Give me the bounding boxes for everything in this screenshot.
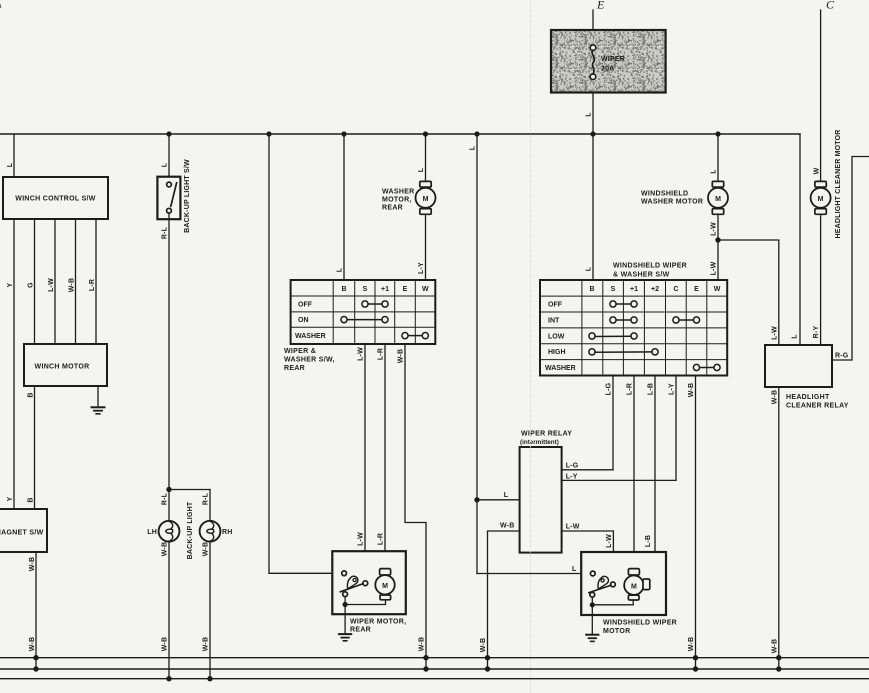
- junction: [776, 655, 781, 660]
- svg-text:W-B: W-B: [688, 383, 695, 397]
- wire L-G S down: [612, 376, 614, 470]
- svg-text:L: L: [418, 167, 425, 172]
- magnet switch: [0, 509, 47, 552]
- svg-text:CLEANER RELAY: CLEANER RELAY: [786, 403, 849, 410]
- svg-text:E: E: [403, 286, 408, 293]
- bottom bus line 1: [0, 657, 869, 659]
- svg-text:OFF: OFF: [298, 302, 313, 309]
- ws switch contacts LOW: [589, 333, 637, 339]
- svg-text:WASHER: WASHER: [382, 189, 415, 196]
- svg-text:W-B: W-B: [29, 637, 36, 651]
- svg-text:L: L: [7, 162, 14, 167]
- svg-text:L-W: L-W: [606, 534, 613, 548]
- svg-text:HEADLIGHT CLEANER MOTOR: HEADLIGHT CLEANER MOTOR: [835, 129, 842, 238]
- wire L to back-up light switch: [168, 134, 170, 182]
- svg-text:W-B: W-B: [688, 637, 695, 651]
- fold artifact line: [530, 0, 532, 693]
- headlight cleaner relay: [765, 345, 832, 387]
- wire L-W down: [717, 214, 719, 280]
- wiper motor rear: [332, 551, 406, 614]
- svg-text:W-B: W-B: [771, 390, 778, 404]
- winch motor: [24, 344, 107, 386]
- svg-text:L: L: [470, 145, 477, 150]
- wire L-W: [54, 219, 56, 344]
- svg-text:G: G: [28, 282, 35, 288]
- wire W-B relay left: [488, 531, 520, 669]
- motor M: [375, 569, 394, 600]
- svg-text:B: B: [589, 286, 594, 293]
- svg-text:E: E: [596, 0, 605, 12]
- svg-text:R-Y: R-Y: [813, 326, 820, 339]
- svg-text:M: M: [715, 196, 721, 203]
- svg-text:L-R: L-R: [378, 533, 385, 545]
- wire W-B relay to bus: [778, 387, 780, 669]
- svg-text:W: W: [422, 286, 429, 293]
- svg-text:L: L: [162, 162, 169, 167]
- svg-text:M: M: [423, 196, 429, 203]
- svg-text:L-Y: L-Y: [566, 474, 578, 481]
- junction: [715, 237, 720, 242]
- svg-text:L: L: [572, 566, 577, 573]
- junction: [715, 131, 720, 136]
- wire E feed down: [592, 10, 594, 134]
- junction: [485, 666, 490, 671]
- svg-text:L-G: L-G: [566, 463, 579, 470]
- svg-text:WINDSHIELD: WINDSHIELD: [641, 191, 688, 198]
- svg-text:WINCH CONTROL S/W: WINCH CONTROL S/W: [15, 196, 96, 203]
- svg-text:WASHER MOTOR: WASHER MOTOR: [641, 199, 703, 206]
- junction: [166, 131, 171, 136]
- wire C right edge: [832, 157, 869, 361]
- svg-text:W-B: W-B: [480, 638, 487, 652]
- svg-text:L-W: L-W: [566, 524, 580, 531]
- svg-text:REAR: REAR: [284, 365, 305, 372]
- junction: [207, 676, 212, 681]
- cam: [598, 576, 608, 589]
- svg-text:WASHER S/W,: WASHER S/W,: [284, 357, 335, 364]
- svg-text:MAGNET S/W: MAGNET S/W: [0, 530, 44, 537]
- svg-text:L: L: [337, 267, 344, 272]
- svg-text:M: M: [382, 583, 388, 590]
- wire L to windshield switch B: [592, 134, 594, 280]
- windshield wiper washer switch table: [540, 280, 727, 376]
- wire R-L: [168, 213, 170, 521]
- wire L feed rear wiper motor: [269, 134, 342, 573]
- contact pivot: [343, 592, 348, 597]
- wire R-Y: [820, 214, 822, 345]
- svg-text:+2: +2: [651, 286, 659, 293]
- back-up light switch: [157, 177, 180, 220]
- headlight cleaner motor: [811, 181, 831, 214]
- wire L-W to relay: [718, 240, 779, 345]
- svg-text:(intermittent): (intermittent): [520, 439, 559, 446]
- svg-text:RH: RH: [222, 529, 233, 536]
- blade: [340, 584, 363, 592]
- ws switch contacts OFF: [610, 301, 637, 307]
- wire: [592, 600, 633, 605]
- svg-text:L-W: L-W: [358, 347, 365, 361]
- svg-text:L-R: L-R: [89, 279, 96, 291]
- svg-text:W-B: W-B: [419, 637, 426, 651]
- wire L-W rear S down: [364, 344, 366, 580]
- svg-text:M: M: [631, 583, 637, 590]
- junction: [485, 655, 490, 660]
- svg-text:C: C: [826, 0, 835, 12]
- svg-text:L-B: L-B: [645, 535, 652, 547]
- svg-text:L-R: L-R: [627, 383, 634, 395]
- wire W-B rear E to bus: [405, 344, 426, 669]
- svg-text:W-B: W-B: [29, 557, 36, 571]
- svg-text:MOTOR: MOTOR: [603, 628, 630, 635]
- svg-text:& WASHER S/W: & WASHER S/W: [613, 272, 670, 279]
- svg-text:L-G: L-G: [606, 382, 613, 395]
- junction: [33, 666, 38, 671]
- svg-text:REAR: REAR: [382, 205, 403, 212]
- svg-text:A: A: [0, 0, 2, 11]
- svg-text:HEADLIGHT: HEADLIGHT: [786, 394, 830, 401]
- svg-text:WIPER RELAY: WIPER RELAY: [521, 431, 572, 438]
- svg-text:L: L: [504, 492, 509, 499]
- svg-text:WINDSHIELD WIPER: WINDSHIELD WIPER: [613, 263, 687, 270]
- svg-text:Y: Y: [7, 282, 14, 287]
- contact pivot: [590, 592, 595, 597]
- svg-text:OFF: OFF: [548, 302, 563, 309]
- wire L-Y: [425, 214, 427, 280]
- wiper relay: [520, 447, 562, 553]
- bottom bus line 2: [0, 668, 869, 670]
- rear switch contacts WASHER: [402, 333, 429, 339]
- wire Y: [13, 219, 15, 509]
- svg-text:W-B: W-B: [398, 349, 405, 363]
- svg-text:L: L: [586, 112, 593, 117]
- wire L-R rear +1 down: [384, 344, 386, 568]
- junction: [693, 666, 698, 671]
- contact: [590, 571, 595, 576]
- junction: [474, 497, 479, 502]
- svg-text:W-B: W-B: [203, 637, 210, 651]
- wire: [345, 599, 385, 605]
- junction: [266, 131, 271, 136]
- blade: [589, 585, 611, 592]
- svg-text:WASHER: WASHER: [545, 365, 576, 372]
- ws switch contacts HIGH: [589, 349, 658, 355]
- rear wiper washer switch table: [291, 280, 436, 344]
- svg-text:WIPER: WIPER: [601, 56, 625, 63]
- back-up light RH bulb: [200, 521, 221, 542]
- bottom bus line 3: [0, 678, 869, 680]
- svg-text:W-B: W-B: [162, 637, 169, 651]
- svg-text:WINDSHIELD WIPER: WINDSHIELD WIPER: [603, 620, 677, 627]
- svg-text:W-B: W-B: [69, 278, 76, 292]
- junction: [474, 131, 479, 136]
- wire C feed down: [820, 10, 822, 184]
- contact: [611, 582, 616, 587]
- junction: [423, 131, 428, 136]
- wire L to windshield wiper motor: [477, 573, 590, 575]
- svg-text:W: W: [814, 167, 821, 174]
- junction: [166, 676, 171, 681]
- wire main top bus: [0, 133, 800, 135]
- wire L-W relay to motor: [562, 531, 614, 582]
- svg-text:R-L: R-L: [162, 226, 169, 239]
- svg-text:L-W: L-W: [711, 261, 718, 275]
- junction: [590, 131, 595, 136]
- svg-text:L-Y: L-Y: [418, 262, 425, 274]
- svg-text:R-L: R-L: [203, 492, 210, 505]
- wire L bus corner to relay: [799, 134, 801, 345]
- svg-text:L: L: [711, 169, 718, 174]
- svg-text:+1: +1: [381, 286, 389, 293]
- wire W-B magnet to bus: [35, 552, 37, 669]
- washer motor rear: [416, 181, 436, 214]
- svg-text:LOW: LOW: [548, 333, 565, 340]
- svg-text:E: E: [694, 286, 699, 293]
- svg-text:L-W: L-W: [48, 278, 55, 292]
- ground wiper motor rear: [339, 607, 351, 641]
- svg-text:BACK-UP LIGHT S/W: BACK-UP LIGHT S/W: [184, 159, 191, 233]
- rear switch contacts OFF: [362, 301, 388, 307]
- svg-text:B: B: [28, 497, 35, 502]
- svg-text:B: B: [28, 392, 35, 397]
- svg-text:W-B: W-B: [162, 542, 169, 556]
- wire L to winch control: [13, 134, 15, 177]
- wire L-R +1 down: [633, 376, 635, 569]
- back-up light LH bulb: [159, 521, 180, 542]
- contact: [363, 581, 368, 586]
- rear switch contacts ON: [341, 317, 388, 323]
- svg-text:WIPER &: WIPER &: [284, 348, 316, 355]
- wire L to rear switch B: [343, 134, 345, 280]
- svg-text:LH: LH: [147, 529, 157, 536]
- windshield wiper motor: [581, 552, 666, 615]
- wire L washer motor rear: [425, 134, 427, 184]
- wire to RH branch: [169, 489, 210, 491]
- wire L windshield washer motor: [717, 134, 719, 184]
- svg-text:HIGH: HIGH: [548, 349, 566, 356]
- svg-text:M: M: [818, 196, 824, 203]
- junction: [343, 602, 348, 607]
- wire: [344, 597, 346, 605]
- svg-text:C: C: [673, 286, 678, 293]
- wire L-G relay to S: [562, 469, 613, 471]
- svg-text:INT: INT: [548, 317, 560, 324]
- svg-text:R-L: R-L: [162, 492, 169, 505]
- svg-text:MOTOR,: MOTOR,: [382, 197, 412, 204]
- svg-text:R-G: R-G: [835, 353, 849, 360]
- svg-text:S: S: [363, 286, 368, 293]
- motor M: [624, 569, 650, 600]
- svg-text:WIPER MOTOR,: WIPER MOTOR,: [350, 619, 406, 626]
- svg-text:+1: +1: [630, 286, 638, 293]
- wire: [591, 597, 593, 605]
- junction: [423, 655, 428, 660]
- svg-text:B: B: [341, 286, 346, 293]
- junction: [341, 131, 346, 136]
- svg-text:REAR: REAR: [350, 627, 371, 634]
- ws switch contacts WASHER: [693, 364, 720, 370]
- contact: [342, 571, 347, 576]
- svg-text:WASHER: WASHER: [295, 333, 326, 340]
- wire W-B RH to bus: [209, 541, 211, 679]
- junction: [423, 666, 428, 671]
- junction: [33, 655, 38, 660]
- svg-text:W-B: W-B: [203, 542, 210, 556]
- svg-text:W-B: W-B: [771, 639, 778, 653]
- junction: [693, 655, 698, 660]
- ground windshield wiper motor: [586, 607, 598, 641]
- svg-text:ON: ON: [298, 317, 309, 324]
- svg-text:L-R: L-R: [378, 348, 385, 360]
- svg-text:L-Y: L-Y: [669, 383, 676, 395]
- svg-text:L: L: [586, 266, 593, 271]
- svg-text:L-B: L-B: [648, 383, 655, 395]
- svg-text:L-W: L-W: [358, 532, 365, 546]
- fuse WIPER 20A: [551, 30, 666, 93]
- wire W-B LH to bus: [168, 541, 170, 679]
- wire G: [34, 219, 36, 344]
- svg-text:W-B: W-B: [500, 523, 514, 530]
- wire W-B E to bus: [695, 376, 697, 670]
- wire L-B +2 down: [650, 376, 655, 584]
- svg-text:BACK-UP LIGHT: BACK-UP LIGHT: [187, 501, 194, 559]
- junction: [776, 666, 781, 671]
- svg-text:Y: Y: [7, 496, 14, 501]
- svg-text:S: S: [611, 286, 616, 293]
- wire L to wiper relay: [477, 499, 520, 501]
- wire L mid feed: [476, 134, 478, 574]
- svg-text:L-W: L-W: [771, 326, 778, 340]
- svg-text:WINCH MOTOR: WINCH MOTOR: [35, 364, 90, 371]
- windshield washer motor: [708, 181, 728, 214]
- cam: [347, 576, 357, 589]
- svg-text:W: W: [714, 286, 721, 293]
- junction: [166, 487, 171, 492]
- junction: [590, 602, 595, 607]
- wire B: [34, 386, 36, 509]
- wire W-B: [75, 219, 77, 344]
- ground winch motor: [92, 386, 105, 414]
- ws switch contacts INT: [610, 317, 700, 323]
- svg-text:L: L: [792, 334, 799, 339]
- svg-text:20A: 20A: [601, 66, 614, 73]
- svg-text:L-W: L-W: [711, 222, 718, 236]
- wire L-Y C down: [562, 376, 676, 481]
- winch control switch: [3, 177, 108, 219]
- wire L-R: [95, 219, 97, 344]
